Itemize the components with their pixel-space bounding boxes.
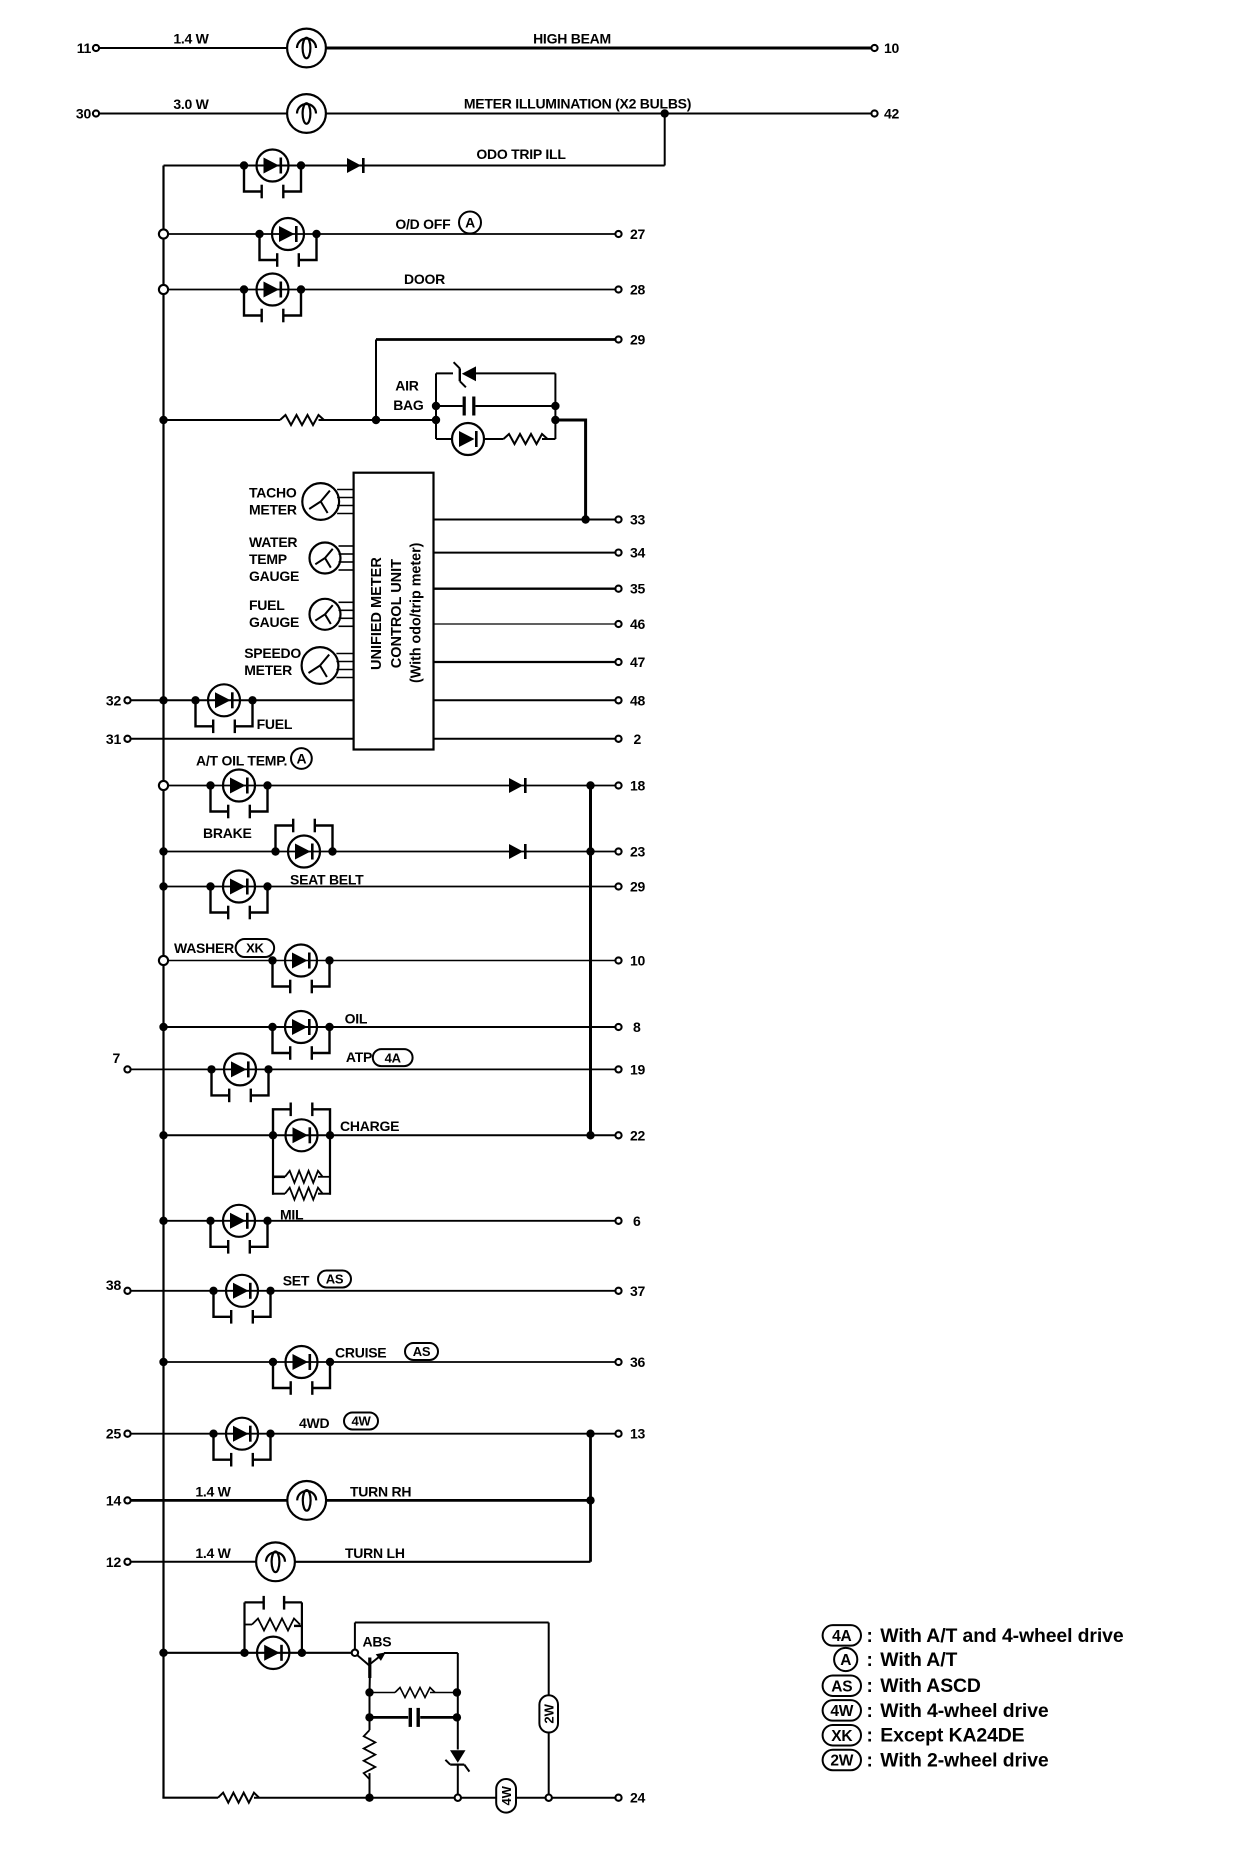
svg-text:ODO TRIP ILL: ODO TRIP ILL — [476, 146, 566, 162]
svg-text:19: 19 — [630, 1061, 646, 1077]
svg-text:29: 29 — [630, 879, 646, 895]
svg-text:4W: 4W — [499, 1785, 514, 1805]
svg-text:FUEL: FUEL — [257, 716, 293, 732]
svg-text:METER: METER — [249, 502, 297, 518]
svg-text:CONTROL UNIT: CONTROL UNIT — [389, 559, 405, 668]
svg-text::: : — [866, 1650, 872, 1671]
svg-text:33: 33 — [630, 512, 646, 528]
svg-text:XK: XK — [246, 941, 264, 956]
svg-text:35: 35 — [630, 581, 646, 597]
svg-text:4A: 4A — [385, 1050, 402, 1065]
svg-text:ATP: ATP — [346, 1049, 372, 1065]
svg-text:FUEL: FUEL — [249, 597, 285, 613]
svg-text:WATER: WATER — [249, 534, 297, 550]
svg-text:46: 46 — [630, 616, 646, 632]
svg-text:BAG: BAG — [393, 397, 424, 413]
svg-text:With 4-wheel drive: With 4-wheel drive — [880, 1700, 1049, 1722]
svg-text:TACHO: TACHO — [249, 485, 297, 501]
svg-text:METER ILLUMINATION (X2 BULBS): METER ILLUMINATION (X2 BULBS) — [464, 96, 691, 112]
svg-text:AS: AS — [831, 1678, 852, 1695]
svg-text:SEAT BELT: SEAT BELT — [290, 872, 364, 888]
svg-text:AS: AS — [326, 1272, 344, 1287]
svg-text:24: 24 — [630, 1790, 646, 1806]
svg-text:31: 31 — [106, 731, 122, 747]
svg-text:2W: 2W — [830, 1753, 853, 1770]
svg-text:With A/T and 4-wheel drive: With A/T and 4-wheel drive — [880, 1625, 1124, 1647]
svg-text:4WD: 4WD — [299, 1415, 330, 1431]
svg-text:A: A — [296, 751, 306, 767]
svg-text:32: 32 — [106, 692, 122, 708]
svg-text:OIL: OIL — [345, 1011, 368, 1027]
svg-text:SPEEDO: SPEEDO — [244, 645, 301, 661]
svg-text:A/T OIL TEMP.: A/T OIL TEMP. — [196, 753, 287, 769]
svg-text:42: 42 — [884, 106, 900, 122]
svg-text:GAUGE: GAUGE — [249, 614, 299, 630]
svg-text:TURN RH: TURN RH — [350, 1484, 411, 1500]
svg-text:36: 36 — [630, 1354, 646, 1370]
svg-text:AS: AS — [413, 1344, 431, 1359]
svg-text:34: 34 — [630, 545, 646, 561]
svg-text:TURN LH: TURN LH — [345, 1545, 405, 1561]
svg-text:4A: 4A — [832, 1628, 851, 1645]
svg-text:2W: 2W — [541, 1703, 556, 1723]
svg-text:6: 6 — [633, 1213, 641, 1229]
svg-text:18: 18 — [630, 778, 646, 794]
svg-text::: : — [866, 1751, 872, 1772]
svg-text:With 2-wheel drive: With 2-wheel drive — [880, 1750, 1049, 1772]
svg-text:3.0 W: 3.0 W — [173, 96, 209, 112]
svg-text:4W: 4W — [830, 1703, 853, 1720]
svg-text:28: 28 — [630, 282, 646, 298]
svg-text:22: 22 — [630, 1127, 646, 1143]
svg-text::: : — [866, 1701, 872, 1722]
svg-text:25: 25 — [106, 1426, 122, 1442]
svg-text:2: 2 — [634, 731, 642, 747]
svg-text:O/D OFF: O/D OFF — [395, 216, 451, 232]
svg-text:With A/T: With A/T — [880, 1649, 957, 1671]
svg-text::: : — [866, 1626, 872, 1647]
svg-text:27: 27 — [630, 226, 646, 242]
svg-text:ABS: ABS — [363, 1634, 392, 1650]
svg-text:TEMP: TEMP — [249, 551, 287, 567]
svg-text::: : — [866, 1726, 872, 1747]
svg-text:30: 30 — [76, 106, 92, 122]
svg-text:4W: 4W — [352, 1414, 372, 1429]
svg-text:BRAKE: BRAKE — [203, 825, 252, 841]
svg-text:AIR: AIR — [395, 378, 419, 394]
svg-text:CRUISE: CRUISE — [335, 1345, 386, 1361]
svg-text:DOOR: DOOR — [404, 271, 445, 287]
svg-text:UNIFIED METER: UNIFIED METER — [369, 557, 385, 670]
svg-text:(With odo/trip meter): (With odo/trip meter) — [409, 542, 425, 683]
svg-text:8: 8 — [633, 1019, 641, 1035]
svg-text:WASHER: WASHER — [174, 940, 234, 956]
svg-text:A: A — [840, 1652, 851, 1669]
svg-text:37: 37 — [630, 1283, 646, 1299]
svg-text:XK: XK — [831, 1728, 853, 1745]
svg-text:Except KA24DE: Except KA24DE — [880, 1725, 1024, 1747]
svg-text:1.4 W: 1.4 W — [195, 1545, 231, 1561]
svg-text:38: 38 — [106, 1277, 122, 1293]
svg-text:A: A — [465, 215, 475, 231]
svg-text:13: 13 — [630, 1426, 646, 1442]
svg-text:12: 12 — [106, 1554, 122, 1570]
svg-text::: : — [866, 1676, 872, 1697]
svg-text:With ASCD: With ASCD — [880, 1675, 981, 1697]
svg-text:1.4 W: 1.4 W — [173, 31, 209, 47]
svg-text:GAUGE: GAUGE — [249, 568, 299, 584]
svg-text:23: 23 — [630, 844, 646, 860]
svg-text:CHARGE: CHARGE — [340, 1118, 399, 1134]
svg-text:48: 48 — [630, 692, 646, 708]
svg-text:7: 7 — [112, 1050, 120, 1066]
svg-text:11: 11 — [77, 40, 92, 56]
svg-text:47: 47 — [630, 654, 646, 670]
svg-text:1.4 W: 1.4 W — [195, 1484, 231, 1500]
svg-text:29: 29 — [630, 332, 646, 348]
svg-text:10: 10 — [630, 953, 646, 969]
svg-text:METER: METER — [244, 662, 292, 678]
svg-text:SET: SET — [283, 1273, 310, 1289]
svg-text:14: 14 — [106, 1492, 122, 1508]
svg-text:10: 10 — [884, 40, 900, 56]
svg-text:HIGH BEAM: HIGH BEAM — [533, 31, 611, 47]
